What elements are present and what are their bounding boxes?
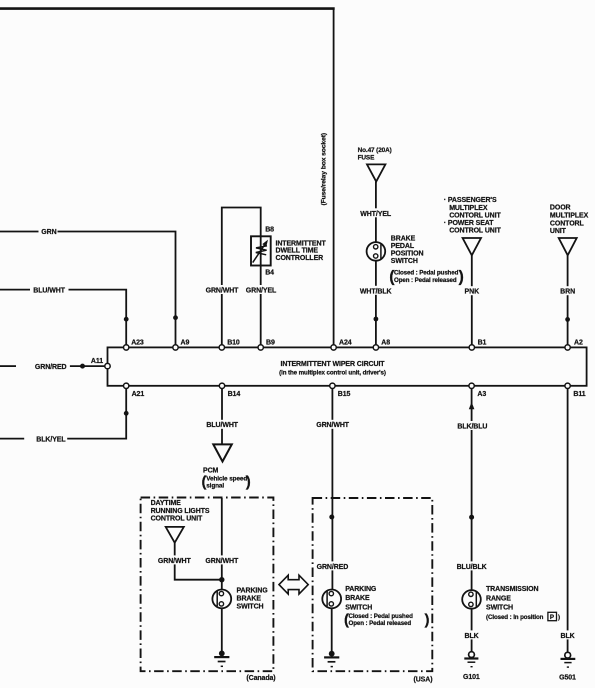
- svg-text:WHT/YEL: WHT/YEL: [360, 211, 392, 218]
- node GRN/WHT label (DRL wire): [158, 555, 192, 564]
- terminal A3: [469, 383, 474, 388]
- svg-text:(: (: [344, 612, 349, 629]
- svg-text:B11: B11: [573, 391, 585, 398]
- wire BLK/YEL stub from left edge: [0, 438, 24, 440]
- svg-text:SWITCH: SWITCH: [237, 604, 264, 611]
- svg-text:CONTORL: CONTORL: [550, 221, 585, 228]
- node GRN/YEL label (B9 wire): [245, 285, 277, 294]
- svg-text:A2: A2: [574, 339, 583, 346]
- wire B11 to G501: [567, 389, 569, 653]
- svg-text:A24: A24: [339, 339, 352, 346]
- svg-text:): ): [558, 614, 560, 621]
- terminal B14: [219, 383, 224, 388]
- svg-text:B14: B14: [228, 391, 241, 398]
- node splice on A3 wire: [469, 515, 474, 520]
- svg-text:POSITION: POSITION: [391, 251, 424, 258]
- component PCM connector triangle: [213, 444, 232, 461]
- terminal A9: [173, 345, 178, 350]
- wire B15 to USA parking brake switch: [331, 389, 333, 590]
- svg-text:· PASSENGER'S: · PASSENGER'S: [444, 197, 497, 204]
- terminal B9: [258, 345, 263, 350]
- svg-text:BLK/YEL: BLK/YEL: [36, 436, 66, 443]
- svg-text:PARKING: PARKING: [345, 586, 377, 593]
- node splice on GRN/A9 wire: [173, 315, 178, 320]
- wire A3 to transmission range switch: [471, 389, 473, 591]
- svg-text:B10: B10: [227, 339, 240, 346]
- svg-text:INTERMITTENT: INTERMITTENT: [276, 241, 327, 248]
- node boxed P: [548, 612, 557, 620]
- ground (canada): [219, 651, 225, 657]
- svg-text:CONTROLLER: CONTROLLER: [276, 255, 324, 262]
- node BLU/WHT label (B14 wire): [206, 420, 240, 429]
- svg-text:A8: A8: [381, 339, 390, 346]
- terminal A21: [124, 383, 129, 388]
- svg-text:B1: B1: [478, 339, 487, 346]
- wire usa switch to ground: [331, 608, 333, 652]
- svg-text:WHT/BLK: WHT/BLK: [360, 288, 392, 295]
- node arrow on A3 wire: [469, 402, 475, 409]
- terminal B11: [565, 383, 570, 388]
- svg-text:PEDAL: PEDAL: [391, 243, 415, 250]
- svg-text:Open : Pedal released: Open : Pedal released: [394, 277, 457, 284]
- wire B10 loop up-over to dwell controller: [222, 208, 261, 346]
- svg-text:): ): [246, 474, 251, 491]
- svg-text:BLU/WHT: BLU/WHT: [33, 287, 65, 294]
- node splice on BLU/WHT/A23 wire: [124, 317, 129, 322]
- svg-text:G501: G501: [559, 674, 576, 681]
- terminal A11: [105, 363, 110, 368]
- wire GRN/RED to A11: [70, 365, 105, 367]
- ground G101: [469, 652, 475, 658]
- svg-text:BRAKE: BRAKE: [237, 596, 262, 603]
- terminal B1: [469, 345, 474, 350]
- node PNK label: [463, 286, 481, 295]
- terminal B15: [330, 383, 335, 388]
- wire PNK to B1: [471, 255, 473, 345]
- node WHT/YEL label: [359, 208, 393, 217]
- wire B14 to PCM: [221, 389, 223, 445]
- svg-text:MULTIPLEX: MULTIPLEX: [550, 213, 589, 220]
- component transmission range switch: [462, 590, 481, 609]
- svg-text:signal: signal: [206, 483, 224, 490]
- node WHT/BLK label: [359, 286, 393, 295]
- svg-text:· POWER SEAT: · POWER SEAT: [444, 220, 494, 227]
- component parking brake switch (usa): [322, 590, 341, 609]
- component brake pedal position switch: [367, 242, 386, 261]
- node splice on BLK/YEL/A21 wire: [124, 411, 129, 416]
- svg-text:PARKING: PARKING: [237, 588, 269, 595]
- svg-text:SWITCH: SWITCH: [391, 258, 418, 265]
- component variable resistor arrow: [253, 243, 266, 263]
- component intermittent wiper circuit bus box: [108, 347, 587, 385]
- svg-text:BRAKE: BRAKE: [391, 236, 416, 243]
- node BLK label (G501 wire): [554, 630, 581, 639]
- component door multiplex connector triangle: [559, 238, 577, 255]
- svg-text:A23: A23: [131, 339, 144, 346]
- svg-text:UNIT: UNIT: [550, 228, 567, 235]
- wire BLU/WHT to A23: [69, 290, 127, 345]
- component parking brake switch (canada): [212, 590, 231, 609]
- svg-text:CONTROL UNIT: CONTROL UNIT: [151, 515, 203, 522]
- svg-text:(In the multiplex control unit: (In the multiplex control unit, driver's…: [279, 370, 386, 377]
- svg-text:): ): [459, 269, 464, 286]
- svg-text:Closed : Pedal pushed: Closed : Pedal pushed: [394, 270, 459, 277]
- svg-text:GRN/WHT: GRN/WHT: [316, 422, 350, 429]
- svg-text:BLK: BLK: [561, 633, 575, 640]
- svg-text:MULTIPLEX: MULTIPLEX: [449, 205, 488, 212]
- svg-text:GRN/RED: GRN/RED: [317, 564, 349, 571]
- svg-text:BRN: BRN: [560, 289, 575, 296]
- ground (usa): [329, 651, 335, 657]
- node splice on B15 wire: [329, 515, 334, 520]
- component variable resistor zigzag: [256, 246, 267, 255]
- svg-text:DOOR: DOOR: [550, 205, 571, 212]
- svg-text:GRN/YEL: GRN/YEL: [246, 288, 277, 295]
- wire A24 vertical from fuse/relay box: [333, 8, 335, 346]
- usa dashed box: [313, 498, 433, 671]
- component fuse triangle: [367, 164, 385, 181]
- svg-text:CONTORL UNIT: CONTORL UNIT: [449, 212, 501, 219]
- svg-text:GRN/WHT: GRN/WHT: [158, 558, 192, 565]
- svg-text:(Closed : In position: (Closed : In position: [486, 614, 544, 621]
- node GRN/RED label (usa wire): [316, 561, 350, 570]
- svg-text:GRN/WHT: GRN/WHT: [205, 558, 239, 565]
- wire canada box top to parking brake switch: [221, 498, 223, 590]
- svg-text:(: (: [389, 269, 395, 286]
- wire BRN to A2: [567, 255, 569, 345]
- node GRN/WHT label (B15 wire): [316, 420, 350, 429]
- terminal A24: [331, 345, 336, 350]
- node BLK label (G101 wire): [458, 630, 485, 639]
- svg-text:RUNNING LIGHTS: RUNNING LIGHTS: [151, 508, 210, 515]
- ground G501: [565, 652, 571, 658]
- wire canada switch to ground: [221, 608, 223, 652]
- wire BLU/WHT stub from left edge: [0, 289, 30, 291]
- svg-text:(USA): (USA): [414, 676, 433, 683]
- svg-text:TRANSMISSION: TRANSMISSION: [486, 586, 539, 593]
- svg-text:A11: A11: [91, 358, 103, 365]
- wire BLK/YEL to A21: [67, 388, 126, 439]
- wire transmission range switch to G101: [471, 609, 473, 652]
- svg-text:P: P: [550, 614, 554, 621]
- svg-text:GRN: GRN: [41, 229, 56, 236]
- svg-text:Open : Pedal released: Open : Pedal released: [349, 620, 412, 627]
- svg-text:No.47 (20A): No.47 (20A): [358, 147, 392, 154]
- component passenger multiplex connector triangle: [463, 238, 481, 255]
- svg-text:BLK: BLK: [465, 633, 479, 640]
- svg-text:GRN/RED: GRN/RED: [35, 364, 67, 371]
- canada dashed box: [141, 498, 274, 672]
- terminal A2: [565, 345, 570, 350]
- svg-text:Vehicle speed: Vehicle speed: [206, 475, 247, 482]
- svg-text:B8: B8: [265, 226, 274, 233]
- svg-text:(Fuse/relay box socket): (Fuse/relay box socket): [321, 133, 328, 206]
- node splice on GRN/RED wire: [80, 364, 85, 369]
- node BLK/BLU label (A3 wire): [456, 421, 488, 430]
- node BRN label: [559, 286, 577, 295]
- svg-text:(: (: [202, 474, 207, 491]
- terminal B10: [219, 345, 224, 350]
- svg-text:B15: B15: [338, 391, 351, 398]
- svg-text:CONTROL UNIT: CONTROL UNIT: [449, 228, 501, 235]
- node GRN/WHT label (B10 wire): [206, 285, 240, 294]
- svg-text:A21: A21: [132, 391, 145, 398]
- wire WHT/YEL fuse to A8: [375, 182, 377, 345]
- wire fuse/relay box feed (top): [0, 7, 335, 10]
- node double arrow between boxes: [279, 575, 308, 594]
- terminal A8: [373, 345, 378, 350]
- svg-text:DWELL TIME: DWELL TIME: [276, 248, 319, 255]
- svg-text:BLK/BLU: BLK/BLU: [457, 423, 487, 430]
- svg-text:B4: B4: [265, 270, 274, 277]
- node splice on BRN wire: [565, 317, 570, 322]
- terminal A23: [124, 345, 129, 350]
- component DRL connector triangle: [166, 527, 184, 543]
- svg-text:(Canada): (Canada): [246, 675, 275, 682]
- wire GRN stub from left edge: [0, 231, 39, 233]
- svg-text:INTERMITTENT WIPER CIRCUIT: INTERMITTENT WIPER CIRCUIT: [281, 361, 386, 368]
- node splice on WHT/BLK wire: [374, 317, 379, 322]
- svg-text:BRAKE: BRAKE: [345, 595, 370, 602]
- svg-text:RANGE: RANGE: [486, 595, 511, 602]
- svg-text:Closed : Pedal pushed: Closed : Pedal pushed: [349, 613, 414, 620]
- svg-text:SWITCH: SWITCH: [486, 605, 513, 612]
- wire DRL to junction: [175, 543, 222, 580]
- wire GRN to A9: [58, 232, 176, 346]
- svg-text:BLU/BLK: BLU/BLK: [457, 564, 487, 571]
- svg-text:DAYTIME: DAYTIME: [151, 500, 182, 507]
- svg-text:GRN/WHT: GRN/WHT: [206, 288, 240, 295]
- svg-text:A3: A3: [477, 391, 486, 398]
- svg-text:): ): [425, 612, 430, 629]
- svg-text:FUSE: FUSE: [358, 155, 375, 162]
- node GRN/WHT label (canada main wire): [205, 555, 239, 564]
- node junction dot canada: [219, 577, 224, 582]
- svg-text:SWITCH: SWITCH: [345, 604, 372, 611]
- svg-text:B9: B9: [266, 339, 275, 346]
- wire GRN/RED stub from left edge: [0, 365, 16, 367]
- svg-text:PNK: PNK: [465, 289, 480, 296]
- component intermittent dwell time controller box: [251, 236, 271, 265]
- svg-text:G101: G101: [463, 674, 480, 681]
- node BLU/BLK label (A3 wire): [456, 561, 488, 570]
- svg-text:A9: A9: [181, 339, 190, 346]
- svg-text:BLU/WHT: BLU/WHT: [206, 422, 238, 429]
